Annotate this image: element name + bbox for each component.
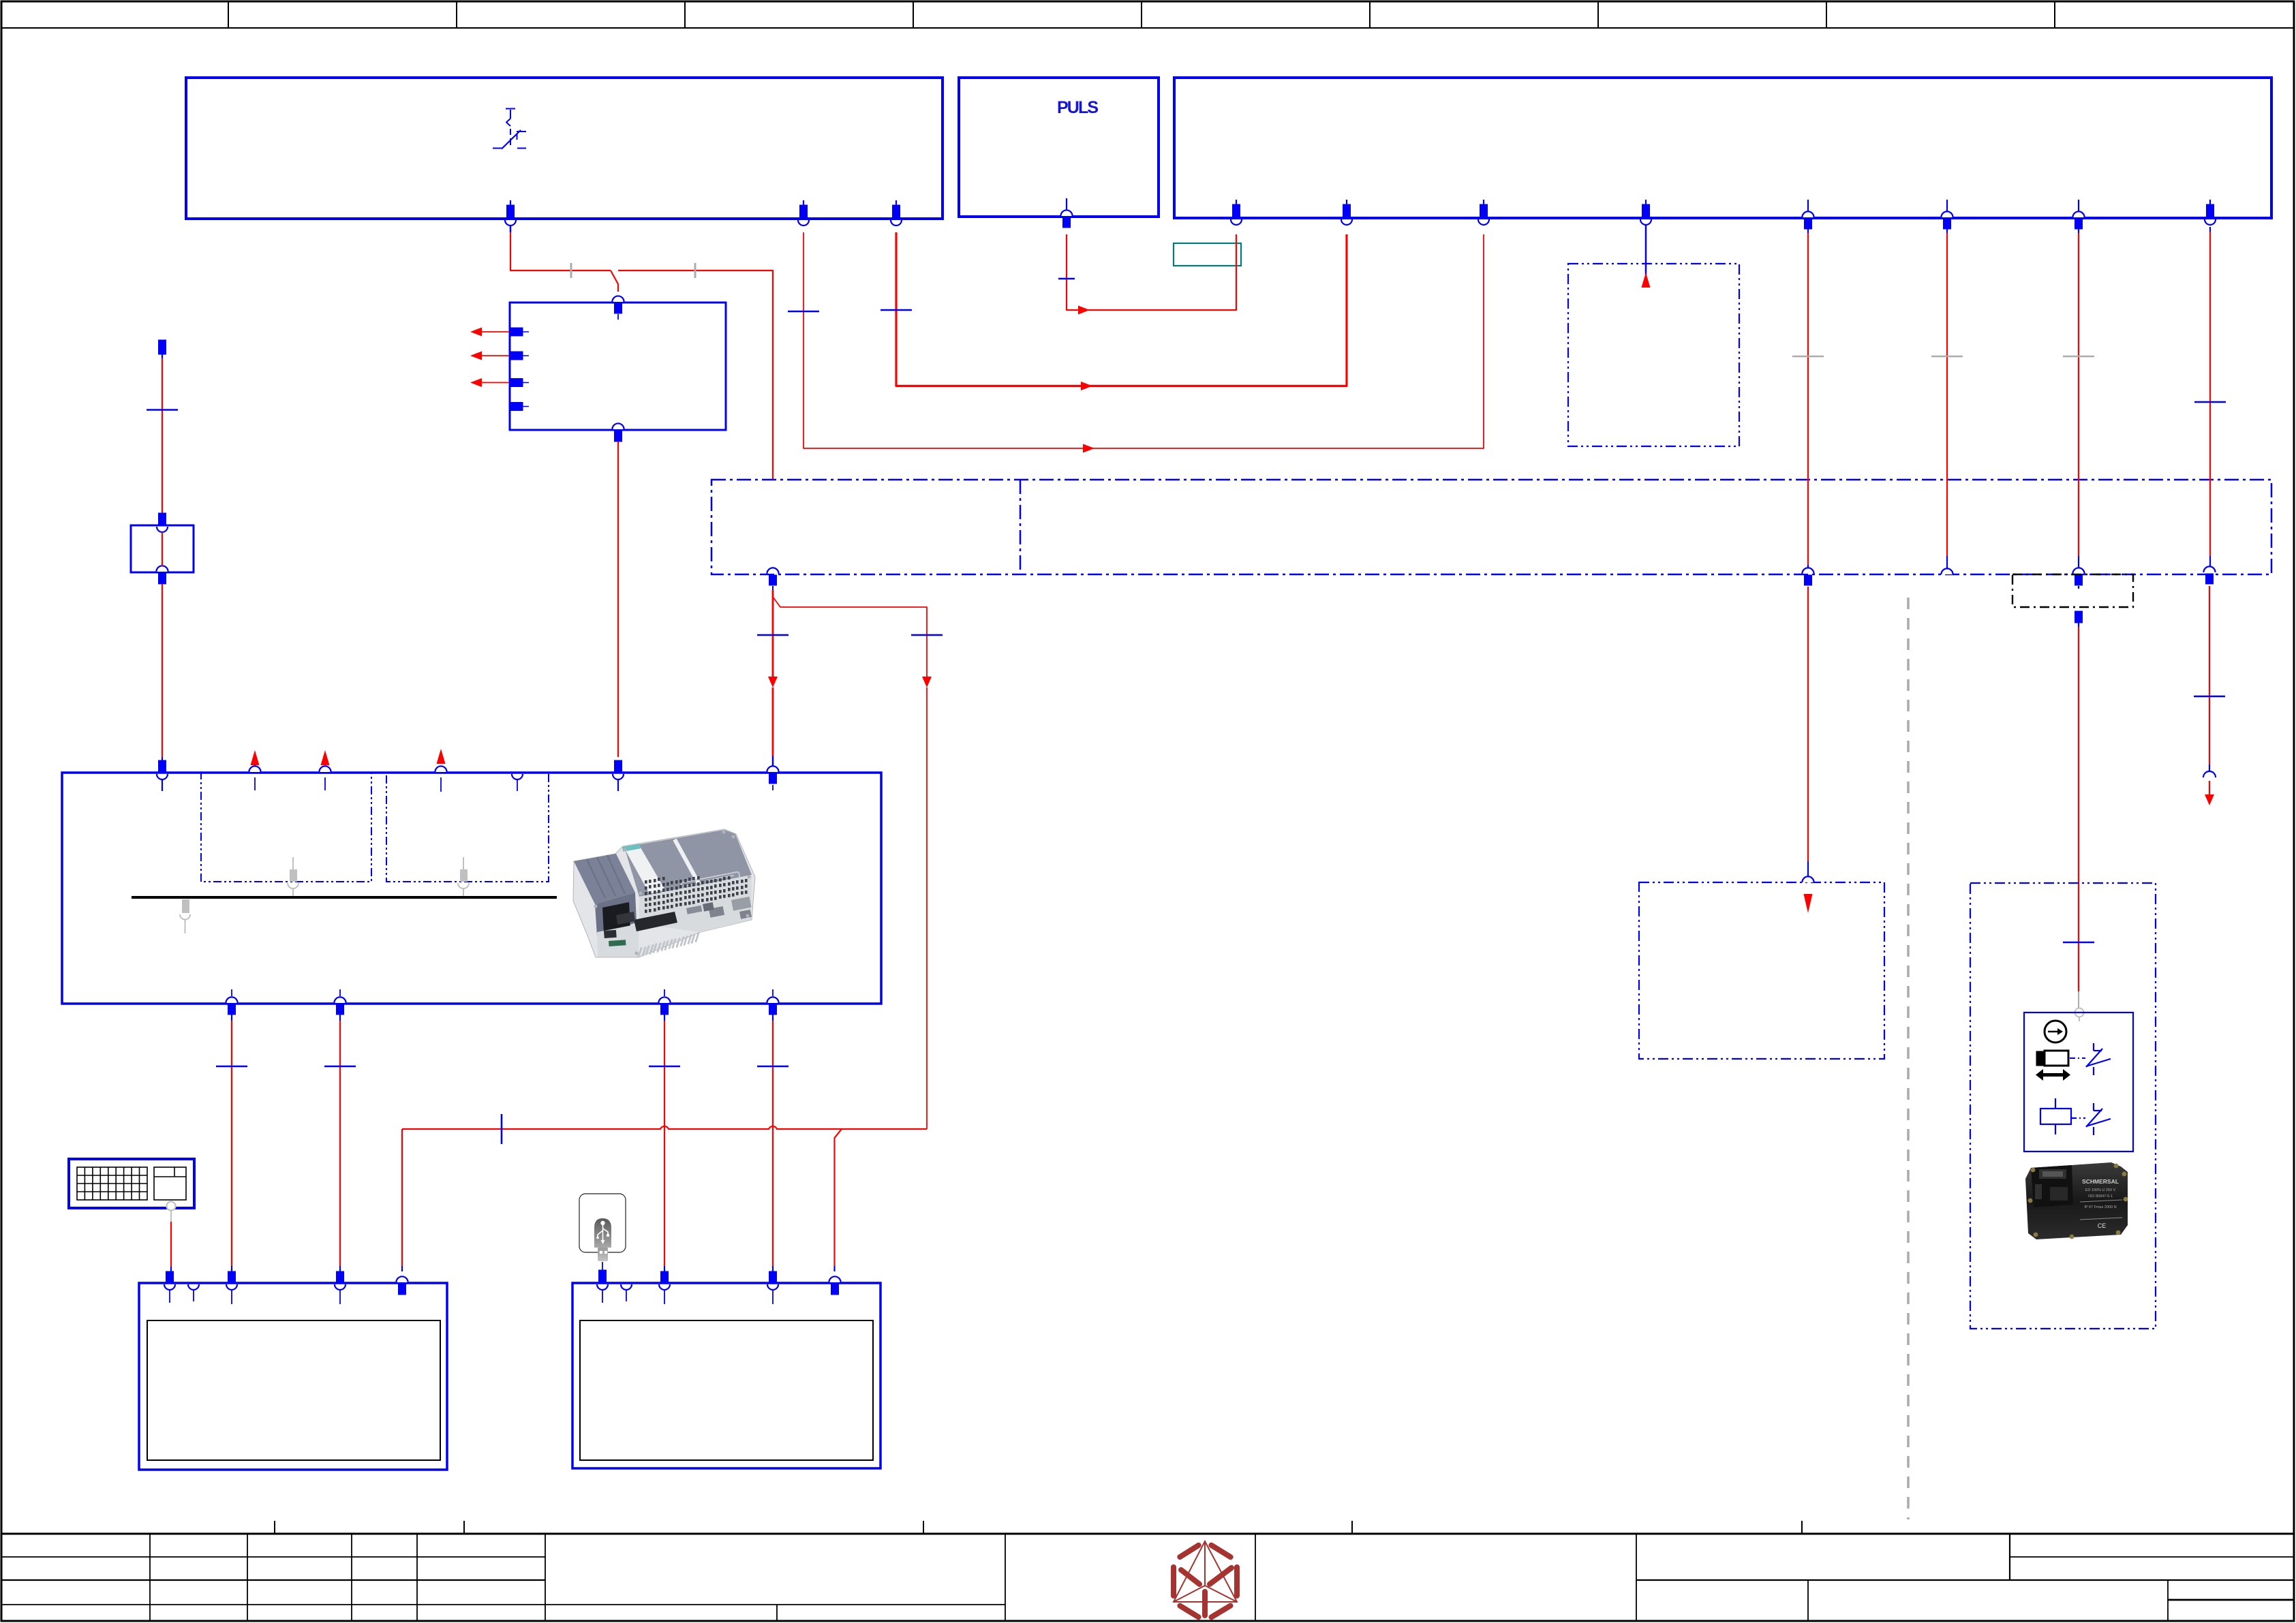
enclosure box A2 (top-right cabinet) bbox=[1174, 78, 2271, 218]
frame bottom column strip bbox=[1, 1521, 2294, 1534]
wire W25 (keyboard to operator unit) bbox=[170, 1222, 172, 1271]
B2 connector -X56 bbox=[767, 1271, 778, 1304]
interface box U1 bbox=[510, 303, 726, 430]
wire W21 (A3 to operator unit) bbox=[324, 1015, 356, 1271]
connector -X1 on A1 bbox=[505, 200, 516, 226]
grey dashed separator line bbox=[1907, 598, 1910, 1519]
duct socket -X23 bbox=[1941, 568, 1953, 574]
wire W12 (X22 to remote box) bbox=[1807, 587, 1809, 878]
duct connector -X21 bbox=[767, 568, 778, 590]
connector on U1 bottom bbox=[612, 423, 624, 442]
wire W1 (X1 to panel PC feed) bbox=[510, 226, 773, 480]
B2 connector -X57 bbox=[829, 1276, 840, 1295]
wire W16 (to door lock relay) bbox=[2063, 586, 2094, 1008]
relay unit inlet circle bbox=[2075, 1008, 2084, 1022]
B2 connector -X54 bbox=[597, 1270, 608, 1303]
connector -X8 on A2 bbox=[1640, 200, 1651, 225]
svg-text:IP 67 Fmax 2000 N: IP 67 Fmax 2000 N bbox=[2084, 1205, 2116, 1209]
A3 connector -X40 bbox=[226, 989, 237, 1015]
PC module frame 1 bbox=[201, 773, 371, 882]
svg-text:SCHMERSAL: SCHMERSAL bbox=[2082, 1178, 2119, 1185]
B1 connector -X51 bbox=[226, 1271, 237, 1304]
wire W14 (X11 down) bbox=[2063, 229, 2094, 571]
interlock coil symbol bbox=[2040, 1098, 2111, 1135]
wire W10 (duct feeds) bbox=[757, 590, 943, 1129]
Z1 top connector bbox=[157, 513, 168, 532]
Z1 bottom connector bbox=[156, 566, 168, 584]
wire W7 (X20 down to filter) bbox=[147, 358, 178, 514]
connector -X4 on PULS bbox=[1060, 198, 1072, 228]
safety door frame (dash-dot) bbox=[1970, 883, 2156, 1329]
connector -X20 (incoming plug) bbox=[159, 340, 166, 358]
wire W11 (X9 down) bbox=[1792, 229, 1824, 571]
door actuator icon bbox=[2036, 1051, 2070, 1081]
line filter Z1 bbox=[131, 525, 194, 572]
B1 connector -X52 bbox=[335, 1271, 346, 1304]
keyboard cable outlet bbox=[167, 1202, 176, 1222]
remote inlet socket bbox=[1802, 876, 1813, 913]
wire W6 (U1 to PC) bbox=[617, 442, 619, 757]
wire W22 (A3 to operator unit) bbox=[649, 1015, 680, 1271]
A3 connector -X32 bbox=[319, 750, 331, 790]
panel PC enclosure A3 bbox=[62, 773, 881, 1004]
connector -X7 on A2 bbox=[1478, 200, 1489, 225]
enclosure box A1 (top-left cabinet) bbox=[186, 78, 943, 219]
A3 connector -X30 bbox=[157, 757, 168, 791]
junction box bottom plug bbox=[2075, 611, 2083, 627]
svg-text:PULS: PULS bbox=[1057, 98, 1099, 117]
remote station frame (dash-dot) bbox=[1639, 882, 1884, 1059]
U1 outgoing signal arrows bbox=[470, 328, 509, 388]
wire W20 (A3 to operator unit) bbox=[216, 1015, 247, 1271]
wire W15 (X12 down) bbox=[2194, 227, 2226, 570]
B1 socket bbox=[188, 1284, 199, 1301]
field cable duct (dash-dot frame) bbox=[711, 480, 2271, 574]
connector -X12 on A2 bbox=[2205, 200, 2216, 225]
wire W24 (duct return to operator units) bbox=[402, 1114, 927, 1271]
connector -X10 on A2 bbox=[1941, 200, 1953, 229]
A3 socket -X34 bbox=[512, 774, 523, 791]
PULS logo text bbox=[1057, 98, 1099, 117]
option module frame (dash-dot) bbox=[1568, 264, 1739, 446]
A3 connector -X43 bbox=[767, 989, 778, 1015]
frame top column strip bbox=[1, 1, 2294, 28]
svg-text:ED 100% U 250 V: ED 100% U 250 V bbox=[2085, 1188, 2116, 1192]
wire W9 (Z1 to PC X30) bbox=[162, 584, 163, 757]
grey bonding connector 2 bbox=[458, 857, 469, 897]
wire W5 (X8 stub into option box) bbox=[1642, 225, 1651, 288]
operator unit B2 (display) bbox=[572, 1283, 881, 1468]
connector -X5 on A2 bbox=[1231, 200, 1242, 225]
connector -X3 on A1 bbox=[891, 200, 902, 226]
PC module frame 2 bbox=[386, 773, 549, 882]
B2 display window bbox=[580, 1320, 873, 1460]
operator unit B1 (display/keyboard) bbox=[139, 1283, 447, 1470]
B1 display window bbox=[147, 1320, 440, 1460]
A3 connector -X33 bbox=[435, 749, 446, 792]
keyboard with touchpad icon bbox=[69, 1159, 194, 1208]
door lock relay box K1 bbox=[2024, 1013, 2133, 1151]
connector on U1 top bbox=[612, 296, 624, 320]
wire W23 (A3 to operator unit) bbox=[757, 1015, 789, 1271]
safety contact 1 symbol bbox=[2070, 1043, 2111, 1075]
Schmersal safety switch photo bbox=[2025, 1162, 2128, 1239]
svg-text:CE: CE bbox=[2098, 1222, 2107, 1229]
wire W4 (A1 X2 to A2 X7) bbox=[788, 232, 1484, 453]
grey bonding connector 3 bbox=[180, 899, 190, 933]
A3 connector -X41 bbox=[334, 989, 346, 1015]
connector -X2 on A1 bbox=[798, 200, 809, 226]
power supply box (PULS) bbox=[959, 78, 1159, 217]
PE equipotential rail (black) bbox=[132, 896, 557, 899]
A3 connector -X36 bbox=[767, 766, 778, 790]
A3 connector -X35 bbox=[613, 760, 624, 791]
duct connector -X24 bbox=[2072, 568, 2084, 585]
junction box (black dash-dot) bbox=[2012, 574, 2133, 607]
U1 left pin terminals bbox=[510, 328, 529, 411]
A3 connector -X31 bbox=[249, 750, 260, 790]
reference frame (teal) bbox=[1174, 243, 1241, 266]
title block grid bbox=[1, 1534, 2294, 1622]
B1 connector -X53 bbox=[396, 1276, 408, 1295]
rotation sensor icon bbox=[2045, 1021, 2066, 1042]
B2 socket bbox=[621, 1284, 632, 1301]
duct connector -X22 bbox=[1802, 568, 1813, 585]
wire W3 (A1 X3 to A2 X6) bbox=[881, 232, 1347, 390]
connector -X11 on A2 bbox=[2072, 200, 2084, 229]
logo hexagon emblem bbox=[1174, 1541, 1237, 1617]
grey bonding connector 1 bbox=[288, 857, 299, 897]
A3 connector -X42 bbox=[658, 989, 670, 1015]
isolator switch symbol Q1 bbox=[493, 109, 526, 149]
connector -X6 on A2 bbox=[1341, 200, 1352, 225]
B1 connector -X50 bbox=[164, 1271, 175, 1303]
connector -X9 on A2 bbox=[1802, 200, 1813, 229]
wire W8 (Z1 internal) bbox=[162, 532, 163, 566]
svg-text:ISO 80947-5-1: ISO 80947-5-1 bbox=[2088, 1194, 2113, 1199]
wire W13 (X10 down) bbox=[1931, 229, 1963, 571]
USB stick icon bbox=[579, 1194, 626, 1261]
duct connector -X25 bbox=[2203, 566, 2215, 584]
wire W17 (spare, arrow end) bbox=[2194, 586, 2225, 805]
Siemens box PC photo bbox=[573, 829, 755, 957]
USB stub to operator unit bbox=[602, 1262, 603, 1270]
wire W2 (PULS out to A2 X5) bbox=[1058, 234, 1236, 315]
B2 connector -X55 bbox=[659, 1271, 670, 1304]
